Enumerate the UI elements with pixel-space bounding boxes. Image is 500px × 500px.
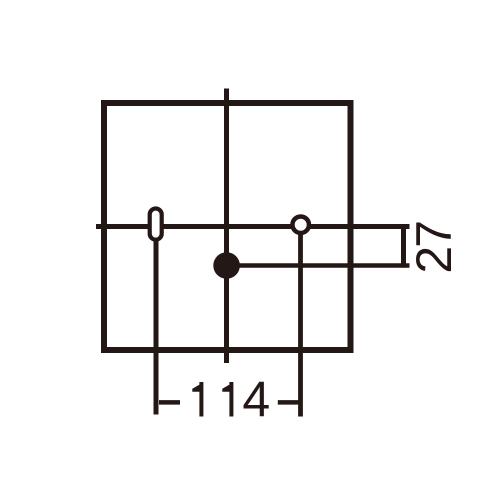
vertical centerline	[224, 89, 229, 364]
left tick 114	[159, 400, 180, 405]
left extension line	[154, 238, 159, 415]
wiring knockout	[213, 252, 240, 279]
svg-text:7: 7	[406, 220, 462, 248]
right extension line	[298, 230, 303, 417]
horizontal centerline	[96, 224, 410, 229]
lamp axis line	[227, 263, 410, 268]
digit 1 (second of 114)	[222, 382, 233, 417]
svg-text:4: 4	[242, 372, 270, 428]
dimension end bar 27	[401, 224, 406, 268]
pilot hole	[292, 216, 309, 233]
svg-text:2: 2	[406, 246, 462, 274]
dimension label 27	[406, 220, 462, 274]
mounting slot	[150, 209, 162, 240]
digit 1 (first of 114)	[192, 382, 203, 417]
plate outline	[104, 103, 351, 350]
right tick 114	[278, 400, 299, 405]
